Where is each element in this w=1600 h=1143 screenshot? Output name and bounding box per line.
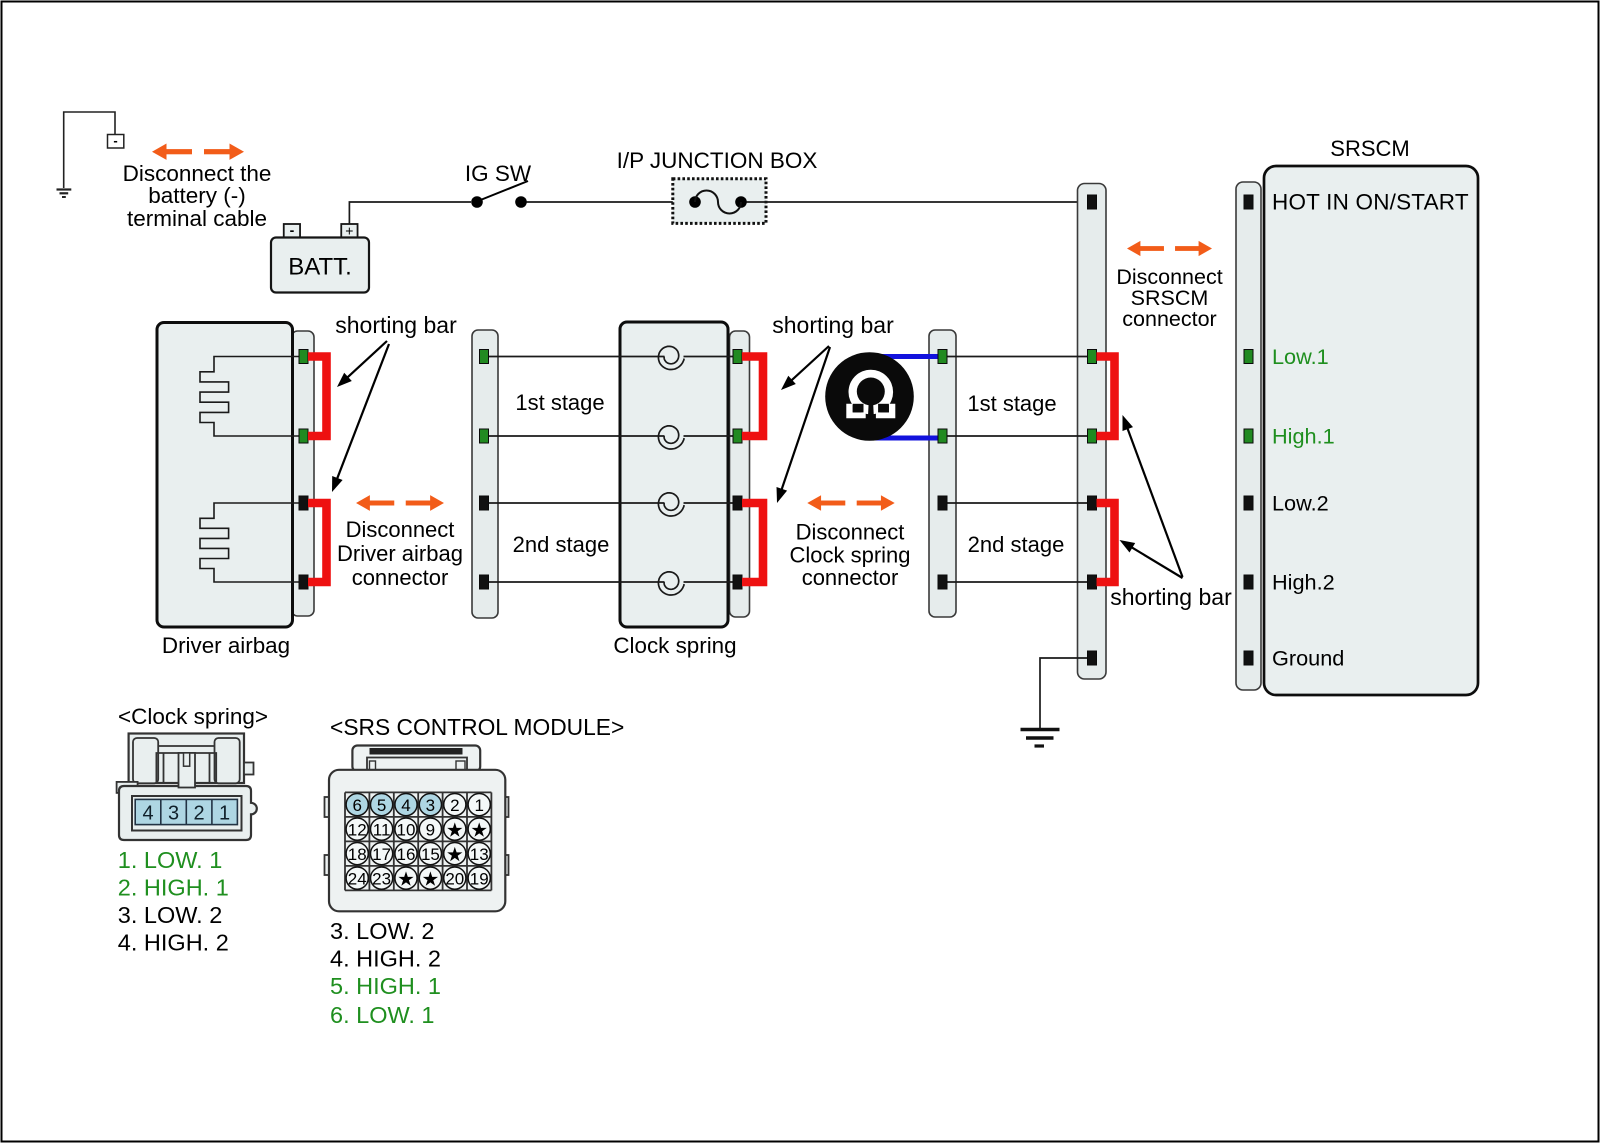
svg-text:9: 9 [426,820,435,839]
svg-text:2: 2 [450,796,459,815]
svg-text:<SRS CONTROL MODULE>: <SRS CONTROL MODULE> [330,714,624,740]
svg-text:Disconnect: Disconnect [796,520,905,545]
svg-text:6. LOW. 1: 6. LOW. 1 [330,1002,435,1028]
svg-text:1st stage: 1st stage [515,390,604,415]
svg-text:18: 18 [348,845,367,864]
svg-text:<Clock spring>: <Clock spring> [118,704,268,729]
svg-text:24: 24 [348,869,367,888]
svg-text:4: 4 [142,803,153,825]
svg-text:+: + [345,223,353,239]
svg-text:Driver airbag: Driver airbag [337,541,463,566]
svg-text:-: - [290,222,295,238]
svg-text:1: 1 [474,796,483,815]
svg-text:Low.1: Low.1 [1272,344,1329,369]
svg-text:4: 4 [401,796,410,815]
svg-text:BATT.: BATT. [288,254,352,281]
svg-text:15: 15 [421,845,440,864]
svg-text:3: 3 [426,796,435,815]
svg-text:13: 13 [470,845,489,864]
svg-text:I/P JUNCTION BOX: I/P JUNCTION BOX [617,148,818,173]
svg-text:2: 2 [193,803,204,825]
svg-text:Ground: Ground [1272,646,1344,671]
svg-text:-: - [113,133,117,148]
svg-text:HOT IN ON/START: HOT IN ON/START [1272,190,1469,215]
svg-text:10: 10 [397,820,416,839]
svg-text:4. HIGH. 2: 4. HIGH. 2 [118,930,229,956]
svg-text:connector: connector [1122,307,1216,331]
svg-text:Disconnect: Disconnect [346,517,455,542]
svg-text:Driver airbag: Driver airbag [162,633,290,658]
svg-text:19: 19 [470,869,489,888]
svg-text:1st stage: 1st stage [967,391,1056,416]
svg-text:20: 20 [445,869,464,888]
svg-text:Low.2: Low.2 [1272,491,1329,516]
svg-text:High.2: High.2 [1272,570,1335,595]
svg-text:3. LOW. 2: 3. LOW. 2 [118,902,223,928]
svg-text:2nd stage: 2nd stage [968,532,1065,557]
svg-text:battery (-): battery (-) [148,183,246,208]
svg-text:5: 5 [377,796,386,815]
svg-text:High.1: High.1 [1272,424,1335,449]
svg-text:1. LOW. 1: 1. LOW. 1 [118,847,223,873]
svg-text:17: 17 [372,845,391,864]
svg-text:terminal cable: terminal cable [127,206,267,231]
svg-text:connector: connector [352,565,449,590]
svg-text:23: 23 [372,869,391,888]
svg-text:16: 16 [397,845,416,864]
svg-text:shorting bar: shorting bar [1110,584,1232,610]
svg-text:2. HIGH. 1: 2. HIGH. 1 [118,875,229,901]
svg-text:shorting bar: shorting bar [335,312,457,338]
svg-text:11: 11 [373,820,391,839]
svg-text:4. HIGH. 2: 4. HIGH. 2 [330,946,441,972]
svg-text:SRSCM: SRSCM [1330,136,1409,161]
svg-text:IG SW: IG SW [465,161,532,186]
svg-text:2nd stage: 2nd stage [513,532,610,557]
svg-text:Clock spring: Clock spring [789,543,910,568]
svg-text:6: 6 [352,796,361,815]
svg-text:shorting bar: shorting bar [772,312,894,338]
svg-text:12: 12 [348,820,367,839]
svg-text:Clock spring: Clock spring [613,633,736,658]
svg-text:5. HIGH. 1: 5. HIGH. 1 [330,973,441,999]
svg-text:3: 3 [168,803,179,825]
svg-text:1: 1 [219,803,230,825]
svg-text:3. LOW. 2: 3. LOW. 2 [330,918,435,944]
svg-text:connector: connector [802,565,899,590]
